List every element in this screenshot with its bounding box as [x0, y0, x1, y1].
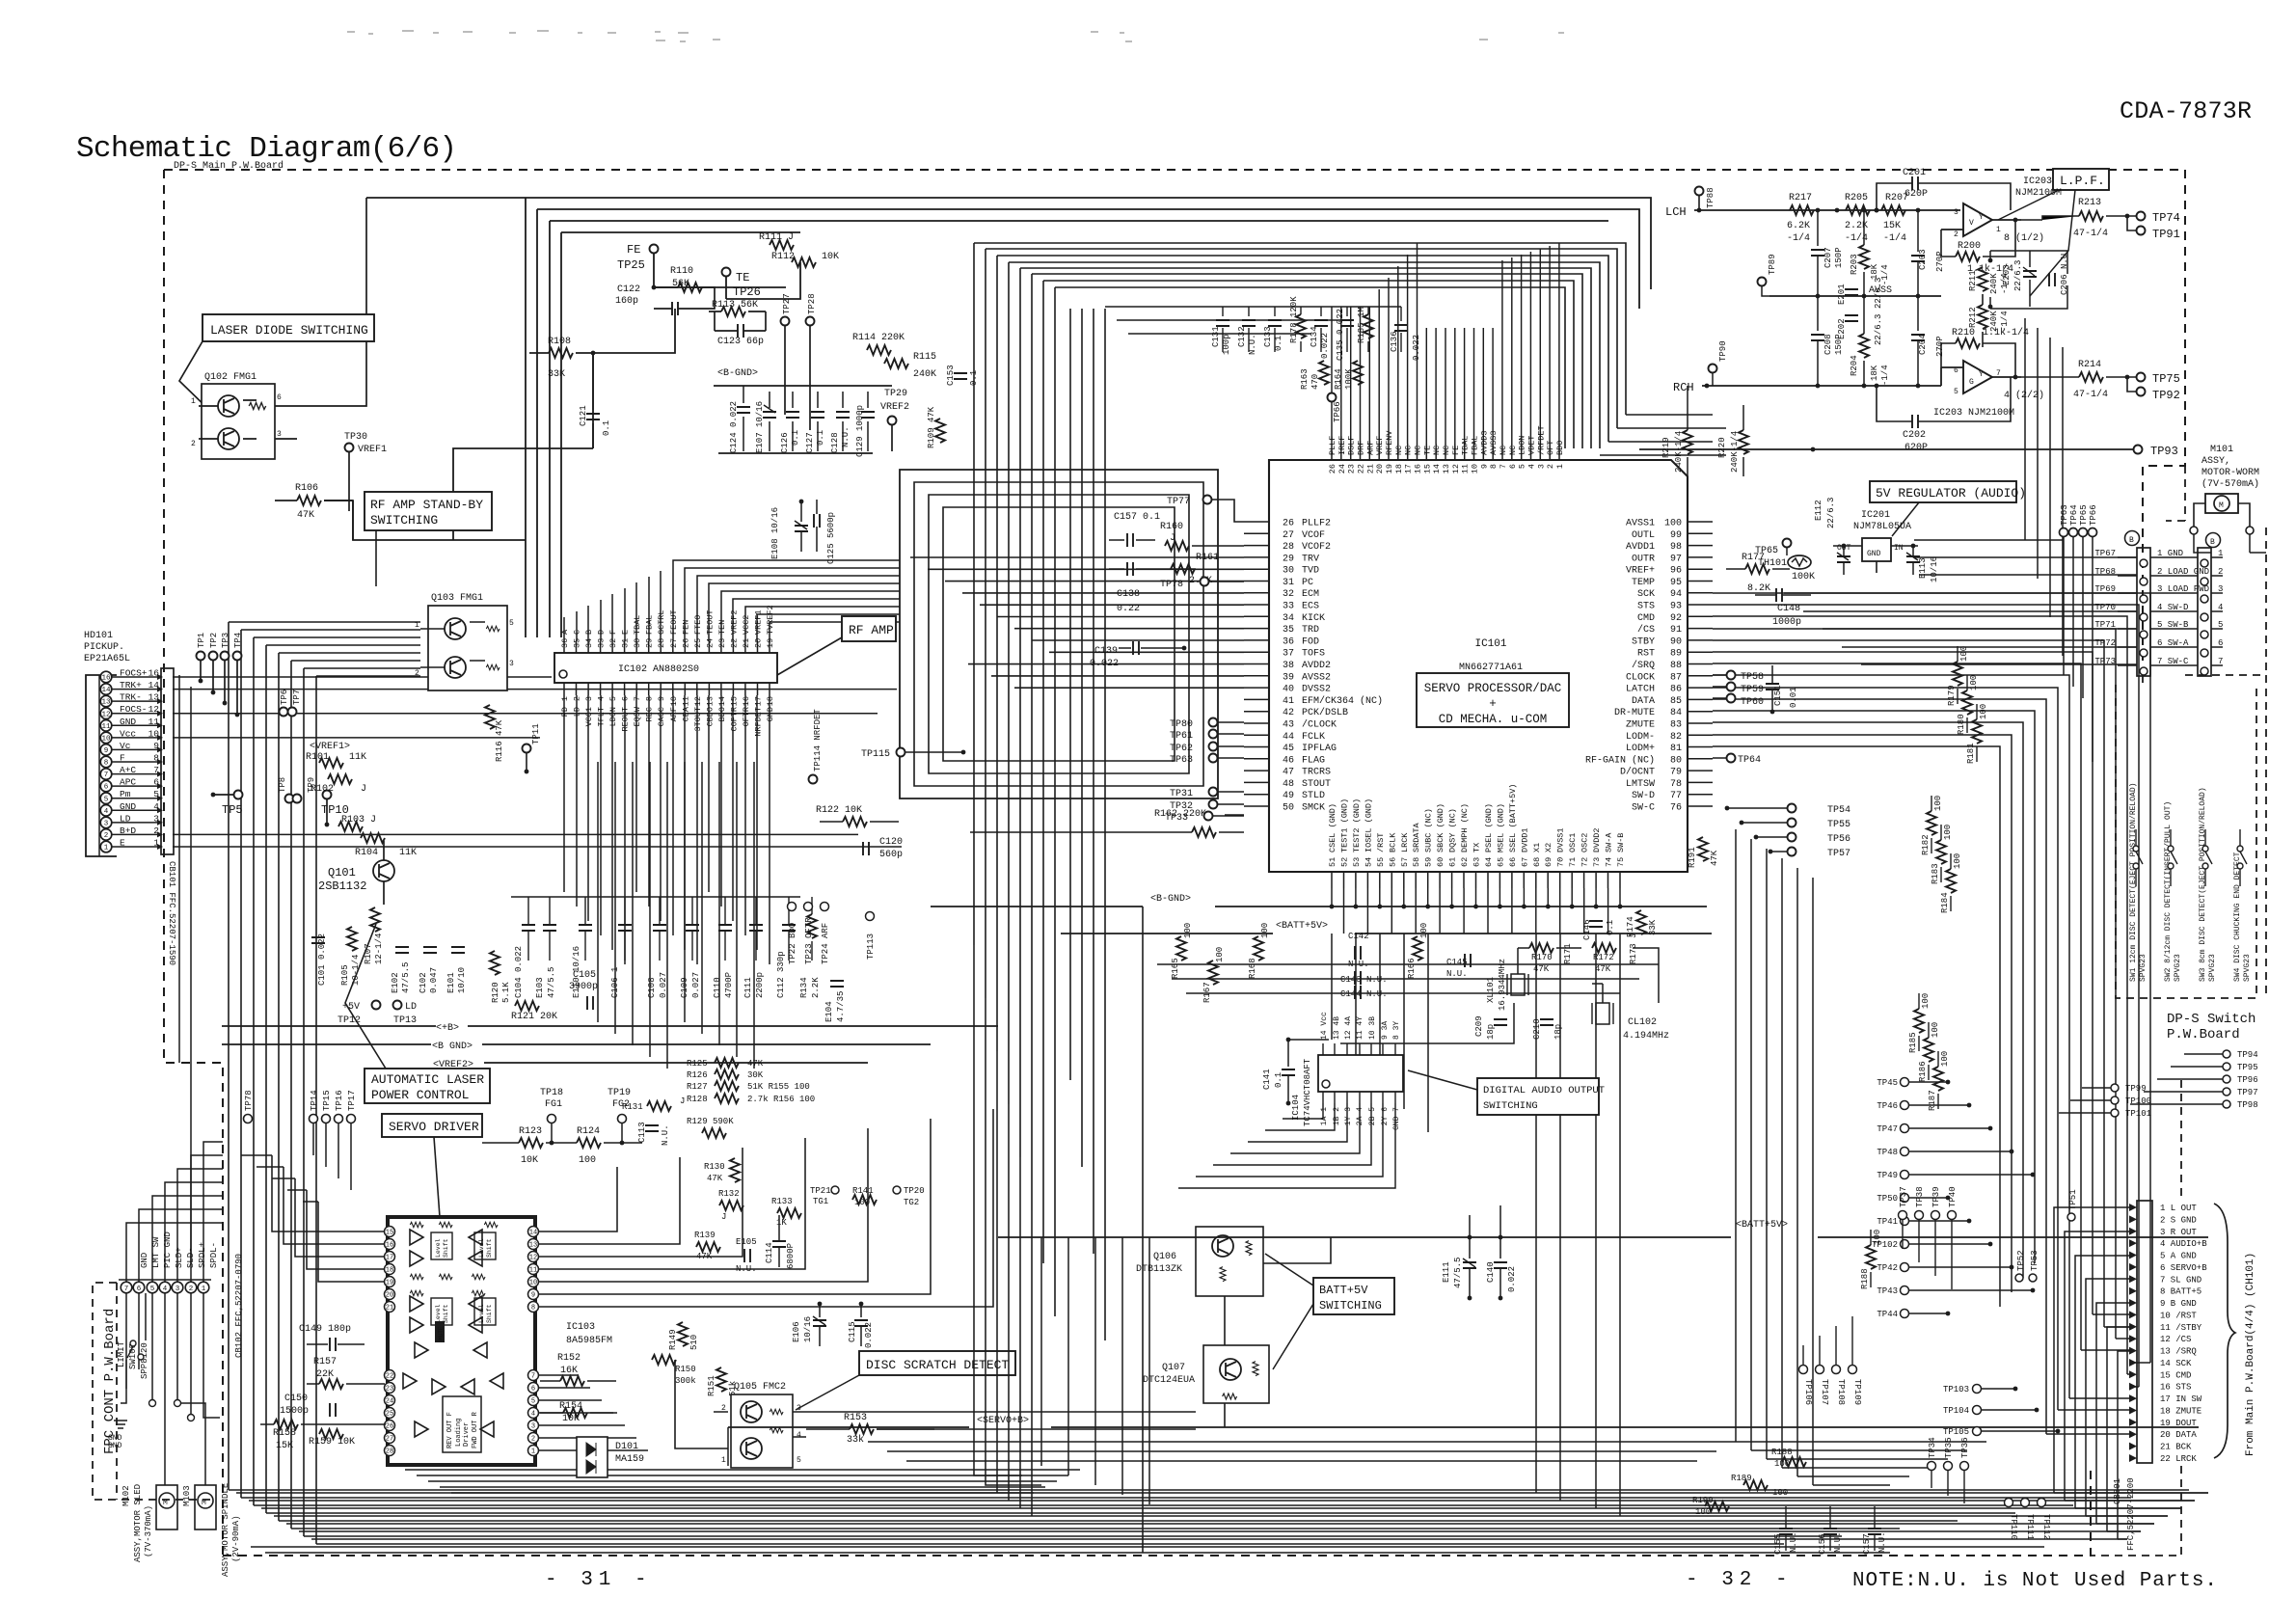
svg-text:AVDD3: AVDD3	[1479, 430, 1489, 455]
svg-text:GND 7: GND 7	[1392, 1107, 1401, 1130]
svg-text:R188: R188	[1771, 1448, 1793, 1457]
svg-text:2: 2	[531, 1436, 535, 1444]
svg-text:TP96: TP96	[2237, 1075, 2258, 1085]
svg-text:9: 9	[104, 747, 109, 755]
svg-text:<B-GND>: <B-GND>	[1150, 894, 1191, 905]
svg-text:270P: 270P	[1935, 251, 1945, 272]
svg-text:9 3A: 9 3A	[1381, 1021, 1390, 1040]
svg-text:14: 14	[1432, 464, 1442, 474]
svg-text:LCH: LCH	[1665, 205, 1687, 219]
svg-text:GND: GND	[108, 1442, 122, 1450]
svg-text:VREF+: VREF+	[1626, 566, 1655, 577]
svg-text:C153: C153	[946, 365, 956, 386]
svg-text:TP100: TP100	[2125, 1096, 2151, 1106]
svg-text:22K: 22K	[316, 1369, 334, 1380]
transistor Q106	[1136, 1227, 1263, 1296]
connector CB801 label	[2113, 1477, 2136, 1551]
svg-text:4: 4	[1527, 464, 1537, 469]
svg-text:94: 94	[1670, 589, 1682, 600]
svg-text:TP70: TP70	[2094, 603, 2116, 612]
svg-text:24: 24	[1337, 464, 1347, 474]
svg-text:RF AMP STAND-BY: RF AMP STAND-BY	[370, 498, 483, 512]
svg-text:DVDD2: DVDD2	[1592, 827, 1602, 853]
IC102 top pins 36-19	[560, 605, 775, 653]
svg-text:CD MECHA. u-COM: CD MECHA. u-COM	[1439, 713, 1548, 726]
svg-text:R108: R108	[548, 337, 571, 347]
capacitor C139	[1090, 641, 1186, 669]
svg-text:1Y 3: 1Y 3	[1344, 1107, 1353, 1125]
svg-text:100: 100	[1419, 923, 1429, 938]
svg-text:91: 91	[1670, 625, 1682, 636]
svg-text:2 LOAD GND: 2 LOAD GND	[2157, 567, 2209, 577]
svg-text:5: 5	[153, 789, 159, 799]
wire TP25 net down	[453, 353, 593, 540]
svg-text:TEOUT: TEOUT	[705, 609, 715, 635]
svg-text:39: 39	[1283, 672, 1294, 683]
svg-text:SPP8120: SPP8120	[140, 1342, 149, 1379]
svg-text:TP111: TP111	[2025, 1514, 2035, 1540]
connector HD101 pins	[100, 668, 902, 853]
svg-text:85: 85	[1670, 696, 1682, 707]
svg-text:6: 6	[153, 777, 159, 788]
svg-text:100: 100	[1664, 519, 1682, 529]
resistor R103	[338, 815, 376, 831]
svg-text:47/5.5: 47/5.5	[1453, 1258, 1463, 1288]
svg-text:11K: 11K	[349, 752, 366, 763]
wire left bundle join bottom	[229, 1489, 2189, 1491]
wire Q102 collector	[275, 439, 526, 540]
svg-text:5: 5	[150, 1286, 155, 1293]
svg-text:BATT+5V: BATT+5V	[1319, 1284, 1368, 1297]
svg-text:7: 7	[2218, 657, 2223, 666]
svg-text:TP56: TP56	[1827, 834, 1850, 845]
svg-text:FTEO: FTEO	[693, 615, 703, 635]
resistor R161	[1171, 553, 1219, 586]
svg-text:48: 48	[1283, 779, 1294, 790]
IC101 bottom pins 51-75	[1328, 784, 1626, 888]
svg-text:DSLF: DSLF	[1347, 436, 1357, 455]
svg-text:TP75: TP75	[2152, 372, 2180, 386]
svg-text:C140: C140	[1486, 1261, 1496, 1283]
svg-text:16: 16	[101, 675, 111, 683]
wire bottom mid risers	[1040, 1237, 1042, 1466]
wire ic102 bottom pin drops	[563, 695, 565, 892]
svg-text:C124 0.022: C124 0.022	[729, 401, 739, 453]
wire top rail 3	[550, 221, 1608, 637]
svg-text:E102: E102	[391, 972, 400, 993]
svg-text:STLD: STLD	[1302, 791, 1325, 801]
svg-text:TP32: TP32	[1170, 801, 1193, 812]
svg-text:10/10: 10/10	[457, 967, 467, 993]
svg-text:22/6.3: 22/6.3	[2013, 260, 2023, 291]
svg-text:D/OCNT: D/OCNT	[1620, 767, 1655, 778]
svg-text:R158: R158	[273, 1428, 296, 1439]
svg-text:TP64: TP64	[2069, 504, 2079, 526]
svg-text:C144 N.U.: C144 N.U.	[1340, 989, 1388, 999]
svg-text:C122: C122	[617, 284, 640, 295]
svg-text:Q105 FMC2: Q105 FMC2	[734, 1382, 786, 1393]
svg-text:C210: C210	[1532, 1018, 1542, 1040]
svg-text:C126: C126	[780, 432, 790, 453]
svg-text:560p: 560p	[879, 850, 903, 860]
capacitor C157	[1109, 512, 1196, 576]
test points TP63-TP66 column	[2060, 504, 2099, 762]
wire rf amp frame inner 2	[929, 495, 1189, 773]
svg-text:TP109: TP109	[1852, 1379, 1862, 1405]
svg-text:IOSEL (GND): IOSEL (GND)	[1364, 798, 1373, 853]
test point TP11	[523, 723, 542, 773]
svg-text:TP88: TP88	[1706, 187, 1715, 208]
svg-text:20: 20	[754, 638, 764, 648]
svg-text:12: 12	[149, 704, 160, 715]
label box BATT+5V SWITCHING	[1265, 1254, 1394, 1369]
svg-text:27: 27	[1283, 530, 1294, 541]
svg-text:R120: R120	[491, 982, 500, 1003]
svg-text:R126: R126	[687, 1070, 708, 1080]
test point TP77	[1167, 496, 1244, 523]
svg-text:14 SCK: 14 SCK	[2160, 1359, 2192, 1368]
svg-text:23: 23	[1347, 464, 1357, 474]
svg-text:47K: 47K	[1595, 964, 1611, 974]
svg-text:TP20: TP20	[904, 1186, 925, 1196]
svg-text:A+C: A+C	[120, 765, 136, 775]
svg-text:2Y 6: 2Y 6	[1381, 1107, 1390, 1125]
svg-text:LIMIT: LIMIT	[117, 1340, 126, 1367]
motor M101 assy	[2190, 445, 2259, 534]
svg-text:FEN: FEN	[681, 620, 690, 635]
wire servo area nest	[241, 1155, 384, 1232]
svg-text:FOCS-: FOCS-	[120, 704, 148, 715]
svg-text:9: 9	[657, 696, 666, 701]
svg-text:BCLK: BCLK	[1388, 832, 1397, 853]
svg-text:53: 53	[1352, 857, 1362, 867]
svg-text:R110: R110	[670, 266, 693, 277]
svg-text:Q107: Q107	[1162, 1363, 1185, 1373]
svg-text:TP101: TP101	[2125, 1109, 2151, 1119]
svg-text:16: 16	[386, 1242, 393, 1250]
svg-text:XL101: XL101	[1486, 977, 1496, 1003]
resistors R185-R188	[1860, 993, 1950, 1289]
test points TP110-TP112	[2005, 1499, 2052, 1541]
svg-text:TP34: TP34	[1928, 1437, 1937, 1458]
svg-text:6: 6	[1508, 464, 1518, 469]
svg-text:TP7: TP7	[292, 690, 302, 705]
svg-text:12: 12	[1451, 464, 1461, 474]
resistor R220	[1717, 405, 1748, 476]
svg-text:42: 42	[1283, 708, 1294, 718]
resistors R179-R184	[1921, 646, 1988, 913]
svg-text:TP54: TP54	[1827, 805, 1850, 816]
svg-text:B: B	[2210, 538, 2215, 547]
svg-text:KICK: KICK	[1302, 613, 1325, 624]
svg-text:C138: C138	[1117, 589, 1140, 600]
IC103 internal amps	[403, 1222, 503, 1452]
svg-text:STBY: STBY	[1632, 636, 1655, 647]
svg-text:100: 100	[1943, 825, 1953, 840]
svg-text:TRK-: TRK-	[120, 692, 142, 703]
svg-text:75: 75	[1616, 857, 1626, 867]
capacitors C142 C143 C144 C145	[1340, 932, 1471, 999]
svg-text:IC203 NJM2100M: IC203 NJM2100M	[1933, 408, 2014, 419]
IC101 right pins 100-76	[1585, 519, 1713, 814]
svg-text:TP99: TP99	[2125, 1084, 2147, 1094]
svg-text:6: 6	[277, 393, 282, 402]
svg-text:DISC SCRATCH DETECT: DISC SCRATCH DETECT	[866, 1358, 1009, 1372]
svg-text:Driver: Driver	[463, 1422, 471, 1447]
svg-text:TP57: TP57	[1827, 849, 1850, 859]
svg-text:R217: R217	[1789, 193, 1812, 203]
svg-text:8: 8	[104, 760, 109, 768]
svg-text:13: 13	[101, 699, 111, 707]
svg-text:15 CMD: 15 CMD	[2160, 1370, 2191, 1380]
svg-text:4 SW-D: 4 SW-D	[2157, 603, 2188, 612]
connector DP-S switch left bar	[2094, 548, 2223, 676]
svg-text:C146: C146	[1582, 919, 1592, 940]
svg-text:Pm: Pm	[120, 789, 131, 799]
svg-text:SW-A: SW-A	[1605, 832, 1614, 853]
svg-text:EP21A65L: EP21A65L	[84, 654, 130, 664]
svg-text:1K: 1K	[776, 1218, 787, 1228]
svg-text:22/6.3: 22/6.3	[1874, 314, 1883, 345]
svg-text:TP4: TP4	[233, 633, 243, 648]
svg-text:SCK: SCK	[1637, 589, 1655, 600]
svg-text:14: 14	[717, 696, 727, 706]
svg-text:E: E	[621, 630, 631, 635]
resistor R205	[1835, 193, 1870, 244]
svg-text:22 LRCK: 22 LRCK	[2160, 1454, 2197, 1464]
svg-text:-1/4: -1/4	[1880, 365, 1890, 386]
svg-text:C135 0.022: C135 0.022	[1336, 309, 1345, 361]
svg-text:R164: R164	[1334, 368, 1343, 390]
svg-text:4700P: 4700P	[724, 972, 734, 998]
svg-text:52: 52	[1340, 857, 1350, 867]
wire FE branch	[654, 262, 800, 299]
svg-text:6: 6	[2218, 638, 2223, 648]
svg-text:29: 29	[645, 638, 655, 648]
svg-text:E111: E111	[1442, 1261, 1451, 1283]
svg-text:C202: C202	[1903, 430, 1926, 441]
IC IC101 MN662771A61 body	[1269, 460, 1688, 872]
svg-text:8.2K: 8.2K	[1747, 583, 1770, 594]
svg-text:30K: 30K	[747, 1070, 764, 1080]
svg-text:<B-GND>: <B-GND>	[717, 368, 758, 379]
svg-text:22: 22	[1357, 464, 1366, 474]
svg-text:18: 18	[766, 696, 775, 706]
svg-text:R128: R128	[687, 1095, 708, 1104]
svg-text:2200p: 2200p	[755, 972, 765, 998]
svg-text:R203: R203	[1850, 254, 1859, 275]
svg-text:PSEL (GND): PSEL (GND)	[1484, 803, 1494, 853]
svg-text:20: 20	[386, 1292, 393, 1300]
svg-text:93: 93	[1670, 602, 1682, 612]
svg-text:98: 98	[1670, 542, 1682, 553]
svg-text:R123: R123	[519, 1126, 542, 1137]
svg-text:FBAL: FBAL	[1471, 436, 1480, 455]
svg-text:R131: R131	[622, 1102, 643, 1112]
svg-text:AUTOMATIC LASER: AUTOMATIC LASER	[371, 1072, 484, 1087]
svg-text:C109: C109	[680, 977, 689, 998]
svg-text:IC101: IC101	[1474, 638, 1506, 650]
wire right feed bundle	[1626, 414, 1713, 416]
svg-text:2: 2	[1546, 464, 1555, 469]
wire right lower horizontals	[1736, 1441, 1986, 1443]
svg-text:/SRQ: /SRQ	[1632, 660, 1655, 671]
svg-text:Shift: Shift	[486, 1238, 493, 1258]
svg-text:R177: R177	[1742, 553, 1765, 563]
svg-text:RF AMP: RF AMP	[849, 623, 894, 637]
resistor R213	[2021, 198, 2129, 239]
svg-text:R168: R168	[1248, 958, 1257, 979]
svg-text:86: 86	[1670, 685, 1682, 695]
svg-text:/CS: /CS	[1637, 624, 1655, 636]
svg-text:1: 1	[202, 1286, 206, 1293]
svg-text:R121 20K: R121 20K	[511, 1012, 557, 1022]
svg-text:R150: R150	[675, 1365, 696, 1374]
svg-text:TC74VHCT08AFT: TC74VHCT08AFT	[1303, 1058, 1312, 1126]
svg-text:47K: 47K	[747, 1059, 764, 1069]
svg-text:27: 27	[386, 1436, 393, 1444]
wire motor wires	[2194, 534, 2266, 553]
svg-text:J: J	[680, 1096, 685, 1106]
svg-text:TP28: TP28	[807, 293, 817, 314]
switches SW1-SW4	[2129, 783, 2252, 982]
resistor R163	[1300, 361, 1329, 390]
svg-text:TP45: TP45	[1877, 1078, 1898, 1088]
svg-text:TRK+: TRK+	[120, 680, 142, 690]
svg-text:47K: 47K	[297, 510, 314, 521]
svg-text:N.U.: N.U.	[1446, 969, 1468, 979]
svg-text:11: 11	[681, 696, 690, 706]
test point TP115	[861, 748, 965, 761]
svg-text:TP105: TP105	[1943, 1427, 1969, 1437]
wire servo bottom nest	[405, 1469, 1080, 1471]
svg-text:TP102: TP102	[1872, 1240, 1898, 1250]
label box RF AMP STAND-BY SWITCHING	[365, 492, 492, 586]
test points TP58 TP59 TP60	[1713, 671, 1764, 709]
capacitor C105	[569, 970, 598, 1010]
svg-text:2: 2	[1954, 230, 1958, 239]
test points TP103-TP105	[1943, 1385, 2060, 1438]
svg-text:TP63: TP63	[1170, 755, 1193, 766]
svg-text:VCOF2: VCOF2	[1302, 542, 1331, 553]
svg-text:7: 7	[153, 765, 159, 775]
svg-text:AVDD1: AVDD1	[1626, 542, 1655, 553]
svg-text:CB801: CB801	[2113, 1478, 2122, 1504]
svg-text:11: 11	[101, 723, 111, 731]
svg-text:FWD OUT R: FWD OUT R	[472, 1411, 479, 1448]
svg-text:59: 59	[1424, 857, 1434, 867]
svg-text:TP39: TP39	[1931, 1186, 1941, 1207]
resistor R112	[771, 252, 839, 267]
svg-text:33K: 33K	[1648, 919, 1658, 935]
svg-text:VCC2: VCC2	[742, 615, 751, 635]
svg-text:TP94: TP94	[2237, 1050, 2258, 1060]
svg-text:150P: 150P	[1834, 247, 1844, 268]
wire bottom long bundle	[236, 1492, 2208, 1494]
svg-text:C121: C121	[579, 405, 588, 426]
svg-text:CDA-7873R: CDA-7873R	[2120, 97, 2252, 125]
svg-text:NRFDET: NRFDET	[754, 707, 764, 737]
svg-text:TP95: TP95	[2237, 1063, 2258, 1072]
svg-text:81: 81	[1670, 744, 1682, 754]
capacitor C121	[579, 353, 611, 448]
svg-text:82: 82	[1670, 732, 1682, 743]
svg-text:FG1: FG1	[545, 1099, 562, 1110]
svg-text:23: 23	[717, 638, 727, 648]
resistor R150	[652, 1355, 696, 1386]
svg-text:78: 78	[1670, 779, 1682, 790]
svg-text:TP80: TP80	[1170, 719, 1193, 730]
svg-text:1: 1	[1555, 464, 1565, 469]
svg-text:TG2: TG2	[904, 1198, 919, 1207]
svg-text:2A 4: 2A 4	[1356, 1107, 1364, 1125]
svg-text:2: 2	[721, 1404, 726, 1413]
test point TP89	[1758, 254, 1778, 296]
resistor R122 C120	[816, 805, 903, 860]
wire ic104 bottom drops	[1283, 1103, 1323, 1119]
svg-text:TP29: TP29	[884, 389, 907, 399]
svg-text:1B 2: 1B 2	[1333, 1107, 1341, 1125]
svg-text:RF-GAIN (NC): RF-GAIN (NC)	[1585, 754, 1655, 766]
svg-text:0.022: 0.022	[1507, 1266, 1517, 1292]
FPC CONT board dashed box	[93, 1283, 212, 1500]
test points TP74 TP91	[2127, 211, 2180, 241]
wire ic101 right comb to connector	[2129, 1362, 2150, 1364]
svg-text:TEMP: TEMP	[1632, 578, 1655, 588]
test points TP18 TP19	[540, 1088, 631, 1145]
svg-text:MUTE: MUTE	[438, 1326, 445, 1340]
resistor R154	[540, 1401, 617, 1424]
wire batt rail drop	[1470, 1205, 1500, 1237]
capacitor E202	[1837, 314, 1883, 345]
svg-text:VDET: VDET	[1527, 436, 1537, 455]
svg-text:10: 10	[529, 1280, 537, 1287]
svg-text:TP92: TP92	[2152, 389, 2180, 402]
resistor R159	[309, 1429, 355, 1448]
svg-text:C106 1: C106 1	[610, 967, 620, 998]
svg-text:33K: 33K	[548, 369, 565, 380]
svg-text:X2: X2	[1544, 843, 1553, 853]
svg-text:69: 69	[1544, 857, 1553, 867]
svg-text:OUTR: OUTR	[1632, 554, 1655, 564]
svg-text:51K R155 100: 51K R155 100	[747, 1082, 810, 1092]
svg-text:57: 57	[1400, 857, 1410, 867]
svg-text:C114: C114	[765, 1242, 774, 1263]
svg-text:J: J	[361, 784, 366, 795]
svg-text:E104: E104	[824, 1001, 834, 1022]
svg-text:FE: FE	[627, 243, 640, 257]
wire ic101 right comb	[1713, 593, 2150, 1363]
node LCH	[1665, 205, 1960, 219]
resistor R133 R141 TP21 TP20	[771, 1186, 925, 1228]
svg-text:4: 4	[153, 801, 159, 812]
svg-text:1.1k-1/4: 1.1k-1/4	[1983, 327, 2029, 338]
wire hd101 risers	[179, 675, 191, 1263]
bottom-right connector dashed border	[2091, 1080, 2181, 1556]
+5V LD test points TP12 TP13	[338, 1001, 417, 1027]
svg-text:18: 18	[1394, 464, 1404, 474]
resistor R191	[1688, 837, 1719, 868]
svg-text:8: 8	[645, 696, 655, 701]
wire bgnd drop right	[1142, 907, 1144, 1553]
svg-text:TP11: TP11	[531, 723, 541, 744]
svg-text:F: F	[120, 753, 125, 764]
svg-text:E101: E101	[446, 972, 456, 993]
capacitor C153	[946, 365, 979, 386]
svg-text:C104 0.022: C104 0.022	[514, 946, 524, 998]
svg-text:TP41: TP41	[1877, 1217, 1898, 1227]
svg-text:SRDATA: SRDATA	[1412, 822, 1421, 853]
